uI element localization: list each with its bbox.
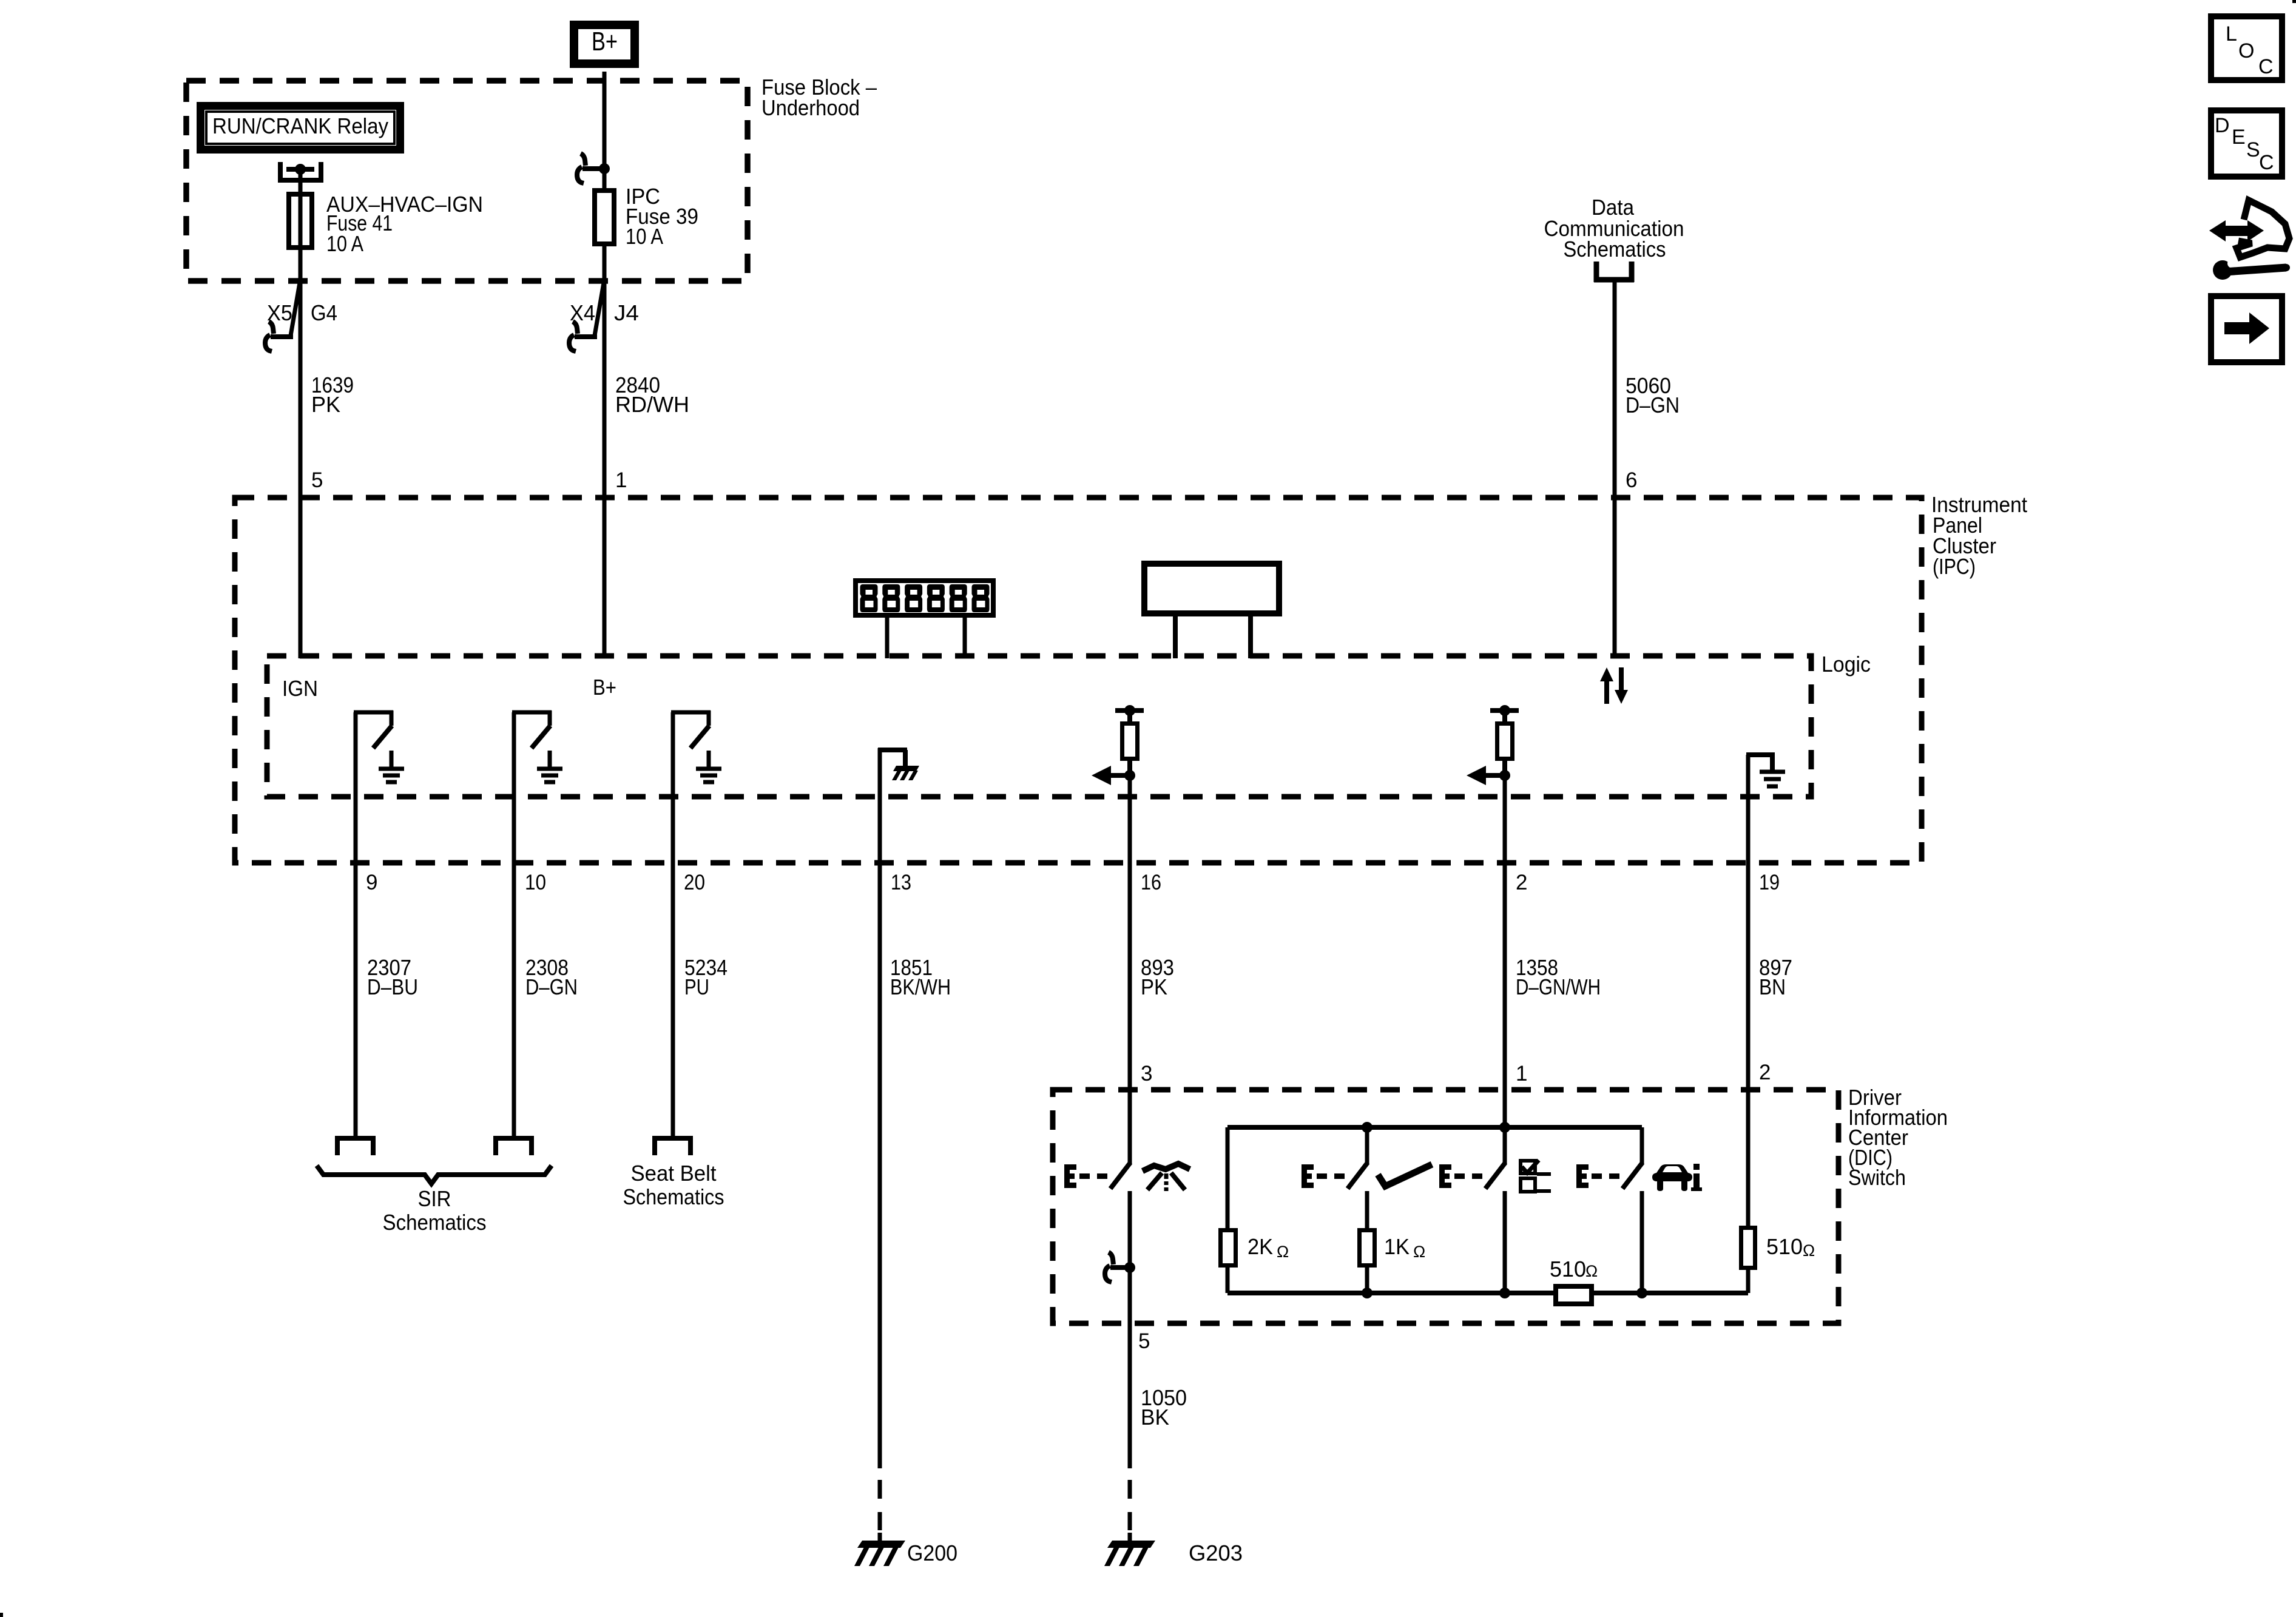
svg-text:(IPC): (IPC) bbox=[1933, 554, 1976, 579]
svg-text:D–BU: D–BU bbox=[367, 974, 418, 999]
wire pin 9 bbox=[354, 712, 358, 1136]
svg-text:G4: G4 bbox=[311, 300, 337, 325]
svg-text:J4: J4 bbox=[614, 300, 639, 325]
svg-text:C: C bbox=[2259, 151, 2274, 174]
resistor 2K bbox=[1221, 1230, 1236, 1266]
svg-text:2K: 2K bbox=[1248, 1234, 1273, 1259]
svg-text:B+: B+ bbox=[592, 27, 618, 56]
svg-text:S: S bbox=[2246, 138, 2260, 161]
svg-text:D–GN: D–GN bbox=[1626, 393, 1680, 417]
ground G203 bbox=[1107, 1541, 1155, 1548]
svg-text:G200: G200 bbox=[907, 1541, 957, 1565]
IPC dashed outline bbox=[235, 498, 1922, 863]
wire pin 20 bbox=[671, 712, 675, 1136]
switch to ground pin 9 bbox=[354, 711, 393, 715]
switch to ground pin 10 bbox=[512, 711, 552, 715]
svg-text:SIR: SIR bbox=[418, 1186, 451, 1211]
svg-text:D–GN: D–GN bbox=[525, 974, 578, 999]
chassis ground pin 13 bbox=[878, 748, 907, 752]
svg-text:1K: 1K bbox=[1384, 1234, 1410, 1259]
svg-text:BK: BK bbox=[1141, 1405, 1169, 1430]
svg-text:1: 1 bbox=[1516, 1062, 1527, 1085]
off-page bracket bbox=[493, 1136, 534, 1141]
svg-text:1: 1 bbox=[615, 468, 627, 492]
wire 897 upper bbox=[1746, 755, 1751, 1228]
svg-text:3: 3 bbox=[1141, 1062, 1152, 1085]
svg-text:20: 20 bbox=[684, 871, 705, 894]
icon arrow box bbox=[2211, 296, 2282, 362]
svg-text:G203: G203 bbox=[1189, 1541, 1243, 1565]
DIC vehicle info switch bbox=[1576, 1164, 1582, 1188]
svg-text:Schematics: Schematics bbox=[623, 1184, 724, 1209]
svg-text:13: 13 bbox=[891, 871, 911, 894]
resistor 510 ohm series bbox=[1556, 1286, 1592, 1304]
resistor with sense arrow pin 2 bbox=[1490, 708, 1519, 713]
connector hook inside DIC bbox=[1124, 1262, 1135, 1273]
wire pin 10 bbox=[512, 712, 516, 1136]
page mark top right bbox=[2292, 0, 2296, 3]
connector hook at fuse 39 input bbox=[599, 163, 610, 174]
svg-text:C: C bbox=[2258, 55, 2274, 78]
Logic dashed outline bbox=[267, 656, 1811, 797]
DIC menu switch bbox=[1439, 1164, 1445, 1188]
fuse F39 IPC 10A bbox=[595, 191, 614, 244]
menu icon bbox=[1521, 1161, 1535, 1173]
wire 2840 RD/WH bbox=[603, 246, 607, 658]
display module with seven-segment digits bbox=[856, 581, 993, 615]
resistor with sense arrow pin 16 bbox=[1115, 708, 1144, 713]
wire 1050 BK bbox=[1128, 1323, 1132, 1468]
svg-text:5: 5 bbox=[311, 468, 323, 492]
svg-text:X4: X4 bbox=[570, 300, 595, 325]
resistor 1K bbox=[1360, 1230, 1375, 1266]
svg-text:RUN/CRANK Relay: RUN/CRANK Relay bbox=[212, 113, 388, 138]
svg-text:10 A: 10 A bbox=[326, 231, 363, 256]
SIR schematics brace bbox=[317, 1166, 552, 1184]
svg-text:RD/WH: RD/WH bbox=[615, 392, 689, 417]
svg-text:O: O bbox=[2238, 39, 2254, 62]
resistor 510 ohm right bbox=[1741, 1228, 1755, 1268]
dashed wire to G203 bbox=[1128, 1480, 1132, 1499]
switch to ground pin 20 bbox=[671, 711, 711, 715]
dashed wire to G200 bbox=[878, 1480, 882, 1499]
icon LOC box bbox=[2211, 16, 2282, 80]
wire 1851 upper bbox=[878, 748, 882, 1468]
DIC trip switch pin 3 bbox=[1064, 1164, 1070, 1188]
svg-text:BN: BN bbox=[1759, 974, 1786, 999]
svg-text:6: 6 bbox=[1626, 468, 1637, 492]
relay K RUN/CRANK Relay box bbox=[197, 102, 404, 154]
svg-text:Schematics: Schematics bbox=[1564, 237, 1666, 262]
svg-text:BK/WH: BK/WH bbox=[890, 974, 951, 999]
svg-text:10 A: 10 A bbox=[626, 224, 663, 249]
display legs bbox=[885, 615, 890, 658]
fuse block dashed outline bbox=[186, 81, 748, 281]
trip stalk icon bbox=[1143, 1164, 1190, 1171]
svg-text:2: 2 bbox=[1759, 1061, 1771, 1084]
check mark icon bbox=[1378, 1164, 1432, 1186]
wire 1358 upper bbox=[1503, 775, 1507, 1130]
ground G200 bbox=[857, 1541, 905, 1548]
fuse F41 AUX-HVAC-IGN 10A bbox=[289, 194, 312, 248]
off-page bracket bbox=[652, 1136, 693, 1141]
svg-text:9: 9 bbox=[366, 871, 377, 894]
DIC internal top bus bbox=[1227, 1125, 1642, 1130]
svg-text:Logic: Logic bbox=[1822, 652, 1871, 677]
wire to 1K bbox=[1365, 1191, 1369, 1228]
svg-text:Schematics: Schematics bbox=[383, 1210, 487, 1235]
svg-text:5: 5 bbox=[1138, 1329, 1150, 1353]
svg-text:IGN: IGN bbox=[282, 676, 318, 701]
svg-text:510: 510 bbox=[1766, 1234, 1803, 1259]
DIC dashed outline bbox=[1053, 1090, 1838, 1323]
svg-text:Seat Belt: Seat Belt bbox=[631, 1161, 717, 1186]
relay contact bracket bbox=[278, 162, 283, 183]
DIC bottom bus bbox=[1227, 1291, 1553, 1295]
data arrows at pin 6 bbox=[1600, 667, 1613, 681]
indicator box bbox=[1144, 564, 1279, 613]
power symbol B+ box bbox=[570, 21, 639, 68]
off-page connector bracket bbox=[1594, 262, 1599, 282]
off-page bracket bbox=[335, 1136, 376, 1141]
svg-text:19: 19 bbox=[1759, 871, 1780, 894]
car info icon bbox=[1652, 1164, 1692, 1191]
clean ground pin 19 bbox=[1746, 752, 1775, 757]
inline connector X4 J4 bbox=[595, 283, 604, 336]
svg-text:Ω: Ω bbox=[1803, 1241, 1815, 1260]
wire 1639 PK bbox=[299, 250, 303, 658]
wire 5060 D-GN bbox=[1613, 282, 1617, 658]
svg-text:X5: X5 bbox=[267, 300, 292, 325]
svg-text:Ω: Ω bbox=[1585, 1262, 1598, 1280]
svg-text:PK: PK bbox=[1141, 974, 1167, 999]
inline connector X5 G4 bbox=[291, 283, 300, 336]
DIC check switch bbox=[1302, 1164, 1307, 1188]
page mark bottom left bbox=[0, 1613, 3, 1617]
wire DIC pin3 to pin5 bbox=[1128, 1191, 1132, 1323]
wire info switch to bus bbox=[1640, 1191, 1644, 1293]
indicator box legs bbox=[1173, 613, 1178, 658]
svg-text:D–GN/WH: D–GN/WH bbox=[1516, 974, 1601, 999]
svg-text:B+: B+ bbox=[593, 675, 616, 700]
svg-text:Switch: Switch bbox=[1848, 1165, 1906, 1190]
svg-text:Ω: Ω bbox=[1277, 1243, 1289, 1261]
svg-text:L: L bbox=[2226, 22, 2237, 46]
wire 893 upper bbox=[1128, 775, 1132, 1164]
svg-text:16: 16 bbox=[1141, 871, 1161, 894]
svg-text:E: E bbox=[2232, 126, 2246, 149]
svg-text:Underhood: Underhood bbox=[761, 95, 860, 120]
svg-text:10: 10 bbox=[525, 871, 546, 894]
svg-text:2: 2 bbox=[1516, 871, 1527, 894]
svg-text:Ω: Ω bbox=[1413, 1243, 1425, 1261]
wire B+ to fuse 39 bbox=[603, 72, 607, 192]
svg-text:PU: PU bbox=[684, 974, 709, 999]
wire menu switch to bus bbox=[1503, 1191, 1507, 1293]
icon hand with arrows and wrench bbox=[2237, 200, 2289, 257]
svg-text:D: D bbox=[2215, 114, 2230, 137]
svg-text:PK: PK bbox=[311, 392, 340, 417]
icon DESC box bbox=[2211, 110, 2282, 177]
svg-text:510: 510 bbox=[1550, 1257, 1586, 1281]
